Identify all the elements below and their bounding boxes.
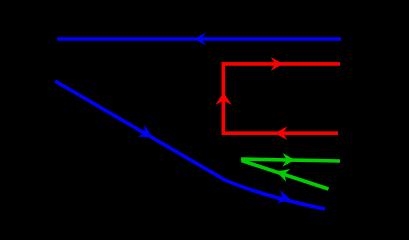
wire: red C-shaped loop (bottom, left vertical, top) [223,64,340,133]
arrowhead on green diagonal (pointing up-left), tip at (277,172.3) [274,165,290,182]
wire: green upper (nearly horizontal) line [241,159,340,161]
wire: top blue horizontal line [57,37,341,41]
arrowhead on red left vertical (pointing up), tip at (223.3,92) [216,92,232,105]
wire: green diagonal line [242,161,329,190]
wire: blue diagonal trajectory (straight then curving flatter) [55,81,325,209]
arrowhead on blue diagonal upper segment, tip at (152,137) [138,125,156,143]
arrowhead on blue diagonal lower segment, tip at (291,200.5) [277,190,293,207]
arrowhead on red top horizontal (pointing right), tip at (283.3,63.9) [271,57,284,71]
arrowhead on top blue line (pointing left), tip at (195,39) [195,33,206,46]
arrowhead on red bottom horizontal (pointing left), tip at (274.7,133.2) [275,126,288,140]
arrowhead on green horizontal (pointing right), tip at (295,160) [282,153,295,167]
